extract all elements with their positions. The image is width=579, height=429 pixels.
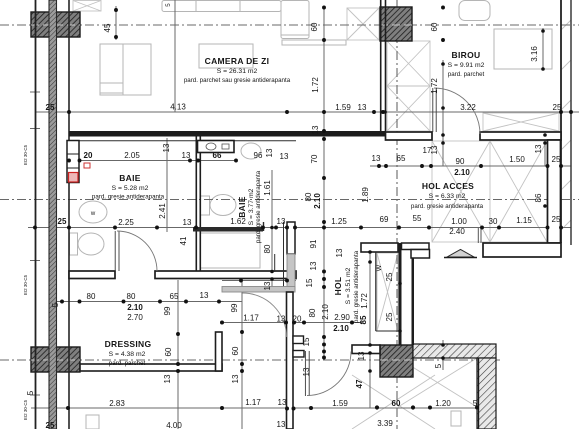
- small rects bottom: [86, 415, 99, 429]
- dots 60 right col: [441, 6, 445, 10]
- svg-text:41: 41: [179, 236, 188, 245]
- svg-text:pard. gresie antiderapanta: pard. gresie antiderapanta: [255, 170, 262, 243]
- svg-text:13: 13: [162, 143, 171, 152]
- baie bottom wall left piece: [69, 271, 115, 279]
- svg-text:1.15: 1.15: [516, 216, 532, 225]
- svg-text:60: 60: [392, 399, 401, 408]
- svg-text:1.72: 1.72: [430, 78, 439, 94]
- dots 45: [114, 8, 118, 12]
- dots misc: [384, 111, 386, 113]
- svg-text:25: 25: [385, 312, 394, 321]
- shaft east wall band: [399, 243, 402, 345]
- window x top-left: [73, 1, 101, 12]
- svg-text:2.10: 2.10: [333, 324, 349, 333]
- hatched band horizontal: [413, 344, 496, 358]
- wall right of shaft top: [402, 243, 430, 250]
- birou door leaf + arc: [432, 88, 434, 132]
- svg-text:47: 47: [355, 379, 364, 388]
- hol acces closet x: [432, 141, 547, 242]
- svg-text:3.22: 3.22: [460, 103, 476, 112]
- baie1 toilet: [70, 233, 78, 255]
- svg-text:S = 4.38 m2: S = 4.38 m2: [109, 351, 146, 358]
- entrance door leaf: [477, 228, 479, 243]
- svg-text:pard. gresie antiderapanta: pard. gresie antiderapanta: [353, 250, 360, 323]
- svg-text:2.83: 2.83: [109, 399, 125, 408]
- right wall hatch: [561, 20, 571, 230]
- svg-text:99: 99: [163, 306, 172, 315]
- svg-text:1.59: 1.59: [332, 399, 348, 408]
- svg-text:EI2 30-C5: EI2 30-C5: [23, 399, 28, 420]
- chain y408: [31, 407, 496, 409]
- svg-text:13: 13: [278, 398, 287, 407]
- svg-text:25: 25: [552, 215, 561, 224]
- svg-text:13: 13: [430, 145, 439, 154]
- svg-text:25: 25: [58, 217, 67, 226]
- dots x178/x242 dressing: [176, 332, 180, 336]
- svg-text:S = 3.77 m2: S = 3.77 m2: [248, 188, 255, 225]
- main wall camera/baie y131: [69, 131, 386, 137]
- svg-text:13: 13: [163, 374, 172, 383]
- svg-text:25: 25: [553, 103, 562, 112]
- dressing/hol wall: [287, 292, 294, 429]
- svg-text:80: 80: [87, 292, 96, 301]
- baie2 inner low wall 1.62: [193, 227, 263, 232]
- interior face x69: [68, 0, 70, 429]
- svg-text:S = 6.33 m2: S = 6.33 m2: [429, 193, 466, 200]
- svg-text:60: 60: [231, 346, 240, 355]
- dressing wall band: [80, 364, 222, 371]
- baie1 door leaf + arc: [114, 231, 116, 271]
- svg-text:5: 5: [165, 3, 172, 7]
- vchain x545: [544, 131, 546, 166]
- svg-text:BIROU: BIROU: [452, 50, 481, 60]
- hol acces east wall: [548, 140, 561, 243]
- hol door leaf + arc: [304, 351, 306, 396]
- dots x370: [368, 250, 372, 254]
- column C2 top-right: [380, 7, 412, 41]
- svg-text:13: 13: [309, 261, 318, 270]
- svg-text:5: 5: [473, 399, 478, 408]
- right exterior wall x561,x571: [560, 0, 562, 243]
- baie2 washbasin cabinet: [198, 141, 235, 153]
- svg-text:pard. gresie antiderapanta: pard. gresie antiderapanta: [411, 203, 484, 210]
- vchain x167: [166, 138, 168, 232]
- svg-text:13: 13: [277, 315, 286, 324]
- svg-text:1.72: 1.72: [360, 293, 369, 309]
- hatched band vertical: [477, 358, 496, 429]
- baie partition x196-200: [195, 134, 197, 271]
- vchain x543 (3.16): [542, 28, 544, 70]
- wall birou-holacces left piece: [386, 132, 433, 140]
- svg-text:15: 15: [302, 337, 311, 346]
- terrace x: [352, 358, 477, 429]
- svg-text:20: 20: [293, 315, 302, 324]
- svg-text:65: 65: [170, 292, 179, 301]
- vchain x324 main: [323, 6, 325, 360]
- chain y280: [222, 280, 296, 282]
- svg-text:2.10: 2.10: [454, 168, 470, 177]
- baie2 basin oval: [241, 143, 261, 159]
- birou west wall: [380, 0, 382, 131]
- svg-text:69: 69: [380, 215, 389, 224]
- svg-text:60: 60: [164, 347, 173, 356]
- svg-text:25: 25: [385, 272, 394, 281]
- svg-text:13: 13: [263, 281, 272, 290]
- dots y166: [377, 164, 381, 168]
- svg-text:80: 80: [304, 192, 313, 201]
- svg-text:1.20: 1.20: [435, 399, 451, 408]
- svg-text:pard. parchet: pard. parchet: [448, 71, 485, 78]
- svg-text:99: 99: [230, 303, 239, 312]
- chain y160 baie1: [69, 160, 236, 162]
- svg-text:13: 13: [534, 144, 543, 153]
- svg-text:65: 65: [397, 154, 406, 163]
- axis A horizontal: [0, 24, 579, 26]
- left wall core hatched x49-56: [49, 0, 57, 429]
- chain y166 hol acces top: [370, 165, 571, 167]
- svg-text:85: 85: [359, 315, 368, 324]
- svg-text:86: 86: [534, 193, 543, 202]
- svg-text:13: 13: [302, 367, 311, 376]
- svg-text:4.00: 4.00: [166, 421, 182, 429]
- svg-text:25: 25: [46, 103, 55, 112]
- vchain x272: [271, 170, 273, 292]
- svg-text:S = 3.51 m2: S = 3.51 m2: [345, 267, 352, 304]
- vchain x116 (45): [115, 6, 117, 40]
- svg-text:3.39: 3.39: [377, 419, 393, 428]
- svg-text:66: 66: [213, 151, 222, 160]
- tv unit: [100, 44, 151, 95]
- column C4 bottom-mid: [380, 345, 413, 377]
- svg-text:96: 96: [254, 151, 263, 160]
- svg-text:15: 15: [305, 278, 314, 287]
- svg-text:1.17: 1.17: [243, 314, 259, 323]
- baie2 toilet: [201, 196, 210, 215]
- dots y408: [66, 406, 70, 410]
- svg-text:2.90: 2.90: [334, 313, 350, 322]
- shaft left line + bottom: [375, 252, 377, 331]
- vchain x443: [442, 60, 444, 166]
- baie2 shower: [200, 233, 260, 268]
- svg-text:2.40: 2.40: [449, 227, 465, 236]
- svg-text:BAIE: BAIE: [119, 173, 141, 183]
- svg-text:BAIE: BAIE: [237, 196, 247, 218]
- svg-text:1.17: 1.17: [245, 398, 261, 407]
- wall birou-holacces right piece: [480, 132, 561, 140]
- svg-text:EI2 30-C5: EI2 30-C5: [23, 274, 28, 295]
- entrance triangle: [447, 250, 474, 258]
- birou bottom cabinet x: [483, 113, 559, 131]
- svg-text:13: 13: [280, 152, 289, 161]
- svg-text:W: W: [376, 264, 383, 271]
- sofa nook x: [347, 8, 379, 40]
- chain y322 hol: [222, 322, 362, 324]
- svg-text:13: 13: [183, 218, 192, 227]
- dots y160: [67, 159, 71, 163]
- vchain x370: [369, 246, 371, 408]
- svg-text:13: 13: [357, 351, 366, 360]
- svg-text:13: 13: [182, 151, 191, 160]
- dots x324 chain: [322, 110, 326, 114]
- svg-text:13: 13: [231, 374, 240, 383]
- left exterior line x35: [35, 0, 37, 429]
- svg-text:1.00: 1.00: [451, 217, 467, 226]
- svg-text:13: 13: [358, 103, 367, 112]
- svg-text:pard. gresie antiderapanta: pard. gresie antiderapanta: [92, 194, 165, 201]
- svg-text:91: 91: [309, 239, 318, 248]
- svg-text:5: 5: [26, 390, 35, 395]
- svg-text:80: 80: [308, 308, 317, 317]
- svg-text:pard. parchet sau gresie antid: pard. parchet sau gresie antiderapanta: [184, 77, 291, 84]
- svg-text:20: 20: [84, 151, 93, 160]
- dots x443: [441, 62, 445, 66]
- vchain x242: [241, 280, 243, 429]
- hol acces south wall: [483, 243, 561, 257]
- column C1 top-left: [31, 12, 80, 37]
- svg-text:2.10: 2.10: [127, 303, 143, 312]
- gray wall L: [287, 254, 295, 292]
- svg-text:2.41: 2.41: [158, 203, 167, 219]
- svg-text:25: 25: [46, 421, 55, 429]
- svg-text:2.05: 2.05: [124, 151, 140, 160]
- svg-text:EI2 30-C5: EI2 30-C5: [23, 144, 28, 165]
- svg-text:HOL ACCES: HOL ACCES: [422, 181, 474, 191]
- svg-text:2.70: 2.70: [127, 313, 143, 322]
- svg-text:S = 9.91 m2: S = 9.91 m2: [448, 62, 485, 69]
- svg-text:70: 70: [310, 154, 319, 163]
- svg-text:13: 13: [277, 217, 286, 226]
- svg-text:S = 5.28 m2: S = 5.28 m2: [112, 185, 149, 192]
- axis C horizontal: [0, 359, 500, 361]
- shaft W x: [377, 253, 398, 331]
- svg-text:3.16: 3.16: [530, 46, 539, 62]
- column C3 bottom-left: [31, 347, 80, 372]
- hol acces west wall upper: [287, 222, 295, 254]
- svg-text:1.72: 1.72: [311, 77, 320, 93]
- dots y280: [239, 279, 243, 283]
- hol door jamb band: [352, 345, 380, 354]
- svg-text:S = 26.31 m2: S = 26.31 m2: [217, 68, 258, 75]
- chain y227 full: [28, 227, 571, 229]
- desk birou: [494, 29, 552, 69]
- svg-text:DRESSING: DRESSING: [105, 339, 152, 349]
- svg-text:1.89: 1.89: [361, 187, 370, 203]
- svg-text:80: 80: [127, 292, 136, 301]
- svg-text:1.59: 1.59: [335, 103, 351, 112]
- chain y112: [35, 111, 579, 113]
- svg-text:13: 13: [277, 420, 286, 429]
- svg-text:2.10: 2.10: [321, 304, 330, 320]
- svg-text:25: 25: [552, 155, 561, 164]
- svg-text:5: 5: [51, 302, 60, 307]
- svg-text:45: 45: [103, 23, 112, 32]
- dots 60 left col: [322, 6, 326, 10]
- left ticks on x35: [30, 128, 40, 130]
- dots x400 shaft: [398, 282, 402, 286]
- dots x272: [270, 226, 274, 230]
- svg-text:2.10: 2.10: [313, 193, 322, 209]
- chain y301: [57, 301, 242, 303]
- dots y322: [284, 321, 288, 325]
- svg-text:1.25: 1.25: [331, 217, 347, 226]
- dots y227: [33, 226, 37, 230]
- svg-text:1.61: 1.61: [263, 180, 272, 196]
- dots x545: [543, 133, 547, 137]
- svg-text:80: 80: [263, 244, 272, 253]
- dressing door arc: [243, 293, 287, 337]
- axis B horizontal: [0, 199, 579, 201]
- svg-text:90: 90: [456, 157, 465, 166]
- svg-text:60: 60: [430, 22, 439, 31]
- svg-text:4.13: 4.13: [170, 103, 186, 112]
- svg-text:w: w: [90, 211, 96, 217]
- birou wardrobe x: [387, 41, 430, 131]
- vchain x176 grid: [174, 0, 176, 112]
- svg-text:13: 13: [335, 248, 344, 257]
- svg-text:30: 30: [489, 217, 498, 226]
- baie1 niche shaft: [67, 141, 79, 183]
- sofa living room: [162, 1, 281, 12]
- svg-text:55: 55: [413, 214, 422, 223]
- svg-text:1.62: 1.62: [230, 217, 246, 226]
- baie1 washbasin: [79, 201, 107, 223]
- svg-text:pard. parchet: pard. parchet: [109, 360, 146, 367]
- svg-text:60: 60: [310, 22, 319, 31]
- U wall under hol acces: [361, 243, 398, 252]
- axis vertical through right columns: [396, 0, 398, 429]
- svg-text:13: 13: [265, 148, 274, 157]
- svg-text:2.25: 2.25: [118, 218, 134, 227]
- svg-text:13: 13: [372, 154, 381, 163]
- svg-text:HOL: HOL: [333, 277, 343, 296]
- svg-text:13: 13: [311, 125, 320, 134]
- svg-text:13: 13: [200, 291, 209, 300]
- svg-text:CAMERA DE ZI: CAMERA DE ZI: [205, 56, 270, 66]
- red box: [69, 173, 79, 183]
- dots y301: [60, 300, 64, 304]
- baie bottom wall right piece: [155, 271, 296, 279]
- svg-text:5: 5: [434, 363, 443, 368]
- svg-text:1.50: 1.50: [509, 155, 525, 164]
- dots chain y112: [67, 110, 71, 114]
